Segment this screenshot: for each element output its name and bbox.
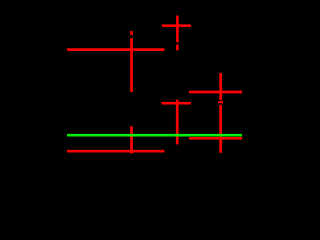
pin P1: dashed pin end above vertical wire — [130, 31, 133, 35]
capacitor plate tick on wire W4 — [218, 101, 223, 103]
wire W4b: right vertical net, lower segment — [219, 105, 222, 153]
junction cross J1: pin origin cross with dashed pin tail — [162, 16, 191, 51]
wire W4a: right vertical net, upper segment — [219, 73, 222, 100]
wire W5: lower horizontal net segment — [67, 150, 165, 153]
net N1: green net wire across bottom — [67, 134, 242, 137]
wire W7: right horizontal net segment (lower) — [189, 137, 242, 140]
wire W3: right horizontal net segment (upper) — [189, 91, 242, 94]
junction cross J2: pin origin cross lower middle — [162, 100, 192, 145]
wire W2: central vertical net segment — [130, 38, 133, 92]
wire W1: upper horizontal net segment — [67, 48, 165, 51]
wire W6: lower vertical net segment — [130, 126, 133, 153]
